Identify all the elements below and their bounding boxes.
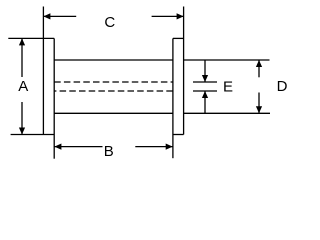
arrowhead B left — [54, 144, 61, 150]
wire left flange bottom edge + A bottom extension line — [11, 134, 55, 136]
arrowhead B right — [166, 144, 173, 150]
arrowhead A up — [19, 38, 25, 45]
svg-text:E: E — [223, 79, 233, 96]
wire left flange inner edge + B left extension line — [53, 38, 55, 158]
wire right flange outer edge + C right extension line — [183, 7, 185, 135]
svg-text:D: D — [277, 78, 288, 95]
wire A dimension line upper segment — [21, 38, 23, 77]
arrowhead E up (lower) — [202, 91, 208, 98]
wire hidden bore top (dashed) — [54, 81, 173, 83]
arrowhead D down — [256, 106, 262, 113]
wire D top extension line — [184, 59, 270, 61]
wire D dimension line lower segment — [258, 93, 260, 114]
wire E top extension bar — [193, 81, 217, 83]
arrowhead E down (upper) — [202, 75, 208, 82]
svg-text:B: B — [104, 143, 114, 160]
arrowhead C left — [43, 13, 50, 19]
wire core bottom edge — [54, 112, 173, 114]
wire left flange top edge + A top extension line — [8, 37, 54, 39]
wire D dimension line upper segment — [258, 60, 260, 77]
wire right flange inner edge + B right extension line — [172, 38, 174, 158]
wire right flange bottom edge — [173, 134, 184, 136]
wire C dimension line left segment — [43, 15, 76, 17]
arrowhead D up — [256, 60, 262, 67]
wire right flange top edge — [173, 37, 184, 39]
wire hidden bore bottom (dashed) — [54, 90, 173, 92]
wire D bottom extension line — [184, 112, 270, 114]
wire B dimension line right segment — [135, 146, 172, 148]
wire B dimension line left segment — [54, 146, 102, 148]
arrowhead C right — [177, 13, 184, 19]
svg-text:A: A — [18, 78, 28, 95]
wire E upper arrow shaft — [204, 60, 206, 82]
wire A dimension line lower segment — [21, 102, 23, 135]
svg-text:C: C — [104, 14, 115, 31]
wire core top edge — [54, 59, 173, 61]
wire E bottom extension bar — [193, 90, 217, 92]
arrowhead A down — [19, 128, 25, 135]
wire left flange outer edge + C left extension line — [42, 7, 44, 135]
wire C dimension line right segment — [152, 15, 184, 17]
wire E lower arrow shaft — [204, 91, 206, 113]
